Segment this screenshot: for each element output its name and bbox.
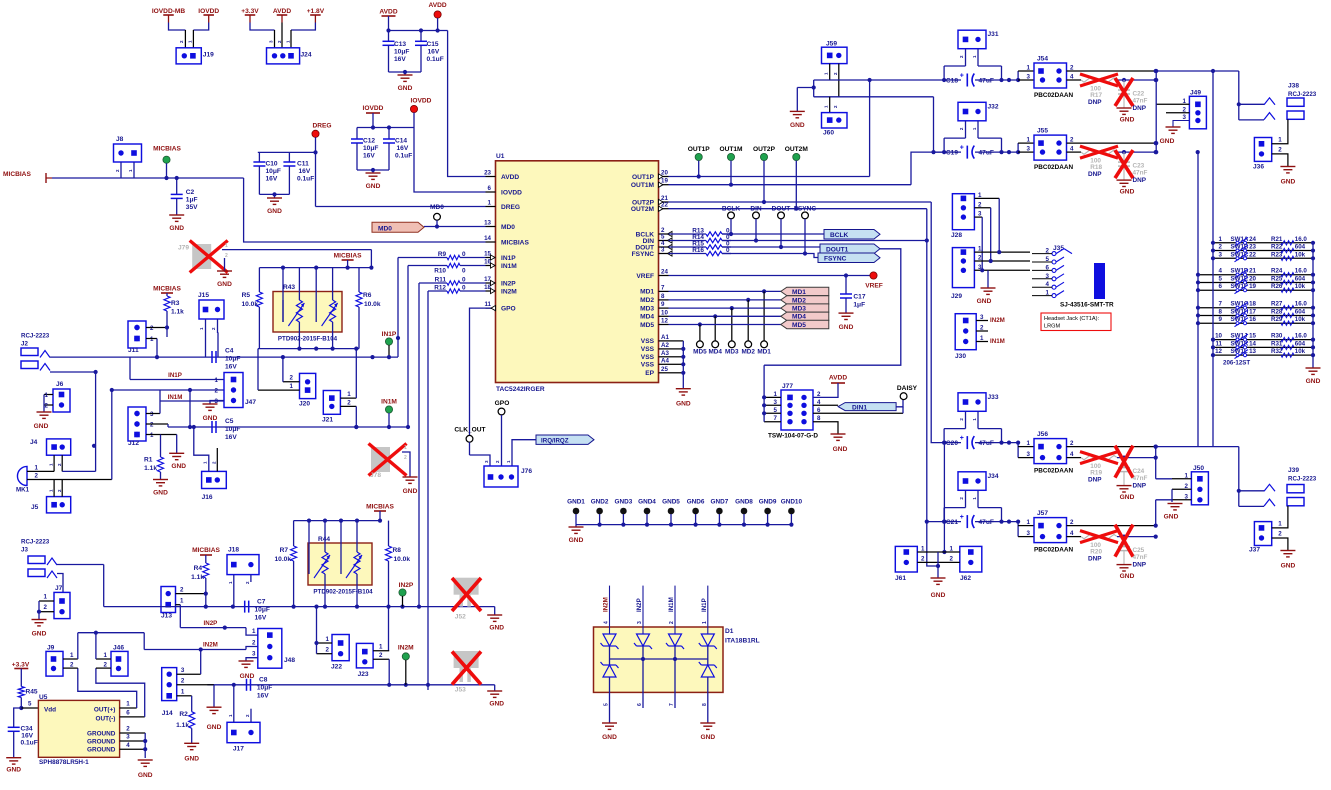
svg-text:GND9: GND9 (759, 499, 777, 506)
svg-text:14: 14 (1249, 340, 1256, 347)
svg-text:GPO: GPO (495, 400, 510, 407)
svg-text:GND: GND (569, 537, 584, 544)
svg-text:MD2: MD2 (640, 297, 654, 304)
svg-text:J38: J38 (1288, 83, 1299, 90)
svg-text:J52: J52 (455, 613, 466, 620)
svg-text:IOVDD: IOVDD (198, 8, 219, 15)
svg-text:J24: J24 (301, 51, 312, 58)
svg-text:VSS: VSS (641, 338, 655, 345)
svg-text:DNP: DNP (1133, 562, 1147, 569)
svg-text:MD2: MD2 (741, 348, 755, 355)
svg-text:2: 2 (326, 647, 330, 654)
svg-text:IN2M: IN2M (203, 642, 218, 649)
svg-text:MD1: MD1 (792, 289, 806, 296)
svg-text:R22: R22 (1271, 244, 1283, 251)
svg-text:24: 24 (1249, 236, 1256, 243)
svg-text:J4: J4 (30, 439, 38, 446)
svg-text:0.1uF: 0.1uF (21, 739, 38, 746)
svg-text:23: 23 (1249, 244, 1256, 251)
svg-text:VREF: VREF (865, 283, 883, 290)
svg-text:10μF: 10μF (225, 426, 240, 433)
svg-text:J30: J30 (955, 353, 966, 360)
svg-text:R20: R20 (1090, 549, 1102, 556)
svg-text:R24: R24 (1271, 268, 1283, 275)
svg-text:MICBIAS: MICBIAS (192, 547, 220, 554)
svg-text:AVDD: AVDD (501, 174, 519, 181)
svg-text:+3.3V: +3.3V (241, 8, 259, 15)
svg-text:2: 2 (669, 621, 675, 624)
svg-text:1: 1 (225, 243, 228, 249)
svg-text:D1: D1 (725, 628, 734, 635)
svg-text:7: 7 (669, 703, 675, 706)
svg-text:2: 2 (1219, 244, 1223, 251)
svg-text:GND: GND (1120, 573, 1135, 580)
svg-text:2: 2 (252, 639, 256, 646)
svg-text:R27: R27 (1271, 301, 1283, 308)
svg-text:16V: 16V (225, 434, 237, 441)
svg-text:16V: 16V (21, 732, 33, 739)
svg-text:R30: R30 (1271, 333, 1283, 340)
svg-text:GND: GND (6, 767, 21, 774)
svg-text:DAISY: DAISY (897, 385, 918, 392)
svg-text:TSW-104-07-G-D: TSW-104-07-G-D (768, 433, 818, 440)
svg-text:13: 13 (484, 220, 491, 227)
svg-text:16.0: 16.0 (1295, 236, 1308, 243)
svg-text:IOVDD: IOVDD (411, 98, 432, 105)
svg-text:J78: J78 (370, 472, 381, 479)
svg-text:J49: J49 (1190, 90, 1201, 97)
svg-text:C19: C19 (946, 150, 958, 157)
svg-text:6: 6 (637, 703, 643, 706)
svg-text:2: 2 (225, 253, 228, 259)
svg-text:2: 2 (150, 422, 154, 429)
svg-text:1: 1 (1027, 440, 1031, 447)
svg-text:604: 604 (1295, 308, 1306, 315)
svg-text:IN1P: IN1P (701, 598, 708, 612)
svg-text:J55: J55 (1037, 128, 1048, 135)
svg-text:ITA18B1RL: ITA18B1RL (725, 638, 760, 645)
svg-text:2: 2 (126, 726, 130, 733)
svg-text:23: 23 (484, 170, 491, 177)
svg-text:2: 2 (1278, 531, 1282, 538)
svg-text:J50: J50 (1193, 465, 1204, 472)
svg-text:15: 15 (1249, 333, 1256, 340)
svg-text:10μF: 10μF (363, 145, 378, 152)
svg-text:GND3: GND3 (615, 499, 633, 506)
svg-text:R4: R4 (194, 565, 203, 572)
svg-text:+: + (960, 73, 964, 80)
svg-text:MD3: MD3 (725, 348, 739, 355)
svg-text:SPH8878LR5H-1: SPH8878LR5H-1 (39, 759, 89, 766)
svg-text:J77: J77 (782, 383, 793, 390)
svg-text:3: 3 (637, 621, 643, 624)
svg-text:6: 6 (488, 185, 492, 192)
svg-text:1: 1 (126, 701, 130, 708)
svg-text:47uF: 47uF (979, 78, 994, 85)
svg-text:3: 3 (1027, 451, 1031, 458)
svg-text:0.1uF: 0.1uF (427, 56, 444, 63)
svg-text:J36: J36 (1253, 164, 1264, 171)
svg-text:2: 2 (290, 375, 294, 382)
svg-text:16: 16 (1249, 316, 1256, 323)
svg-text:604: 604 (1295, 275, 1306, 282)
svg-text:47uF: 47uF (979, 150, 994, 157)
svg-text:MD3: MD3 (640, 305, 654, 312)
svg-text:R2: R2 (179, 711, 188, 718)
svg-text:IOVDD: IOVDD (501, 189, 522, 196)
svg-text:J19: J19 (203, 51, 214, 58)
svg-text:R25: R25 (1271, 275, 1283, 282)
svg-text:16V: 16V (299, 168, 311, 175)
svg-text:J17: J17 (233, 746, 244, 753)
svg-text:GND: GND (489, 701, 504, 708)
svg-text:MICBIAS: MICBIAS (153, 286, 181, 293)
svg-text:47uF: 47uF (979, 440, 994, 447)
svg-text:GND: GND (1160, 138, 1175, 145)
svg-text:R23: R23 (1271, 251, 1283, 258)
svg-text:GND: GND (1120, 117, 1135, 124)
svg-text:SJ-43516-SMT-TR: SJ-43516-SMT-TR (1060, 302, 1114, 309)
svg-text:8: 8 (661, 293, 665, 300)
svg-text:1: 1 (1278, 137, 1282, 144)
svg-text:R6: R6 (363, 292, 372, 299)
svg-text:2: 2 (1278, 147, 1282, 154)
svg-text:J61: J61 (895, 575, 906, 582)
svg-text:C15: C15 (427, 41, 439, 48)
svg-text:MD3: MD3 (792, 306, 806, 313)
svg-text:1: 1 (980, 335, 984, 342)
svg-text:IN1P: IN1P (382, 331, 397, 338)
svg-text:19: 19 (661, 178, 668, 185)
svg-text:DNP: DNP (1133, 483, 1147, 490)
svg-text:2: 2 (45, 403, 49, 410)
svg-text:OUT1M: OUT1M (631, 182, 655, 189)
svg-text:R21: R21 (1271, 236, 1283, 243)
svg-text:IRQ/IRQZ: IRQ/IRQZ (541, 438, 569, 445)
svg-text:VSS: VSS (641, 362, 655, 369)
svg-text:IN2M: IN2M (398, 645, 414, 652)
svg-text:1: 1 (290, 383, 294, 390)
svg-text:GPO: GPO (501, 305, 516, 312)
svg-text:2: 2 (404, 455, 407, 461)
svg-text:16V: 16V (266, 176, 278, 183)
svg-text:GND8: GND8 (735, 499, 753, 506)
svg-text:IN1M: IN1M (668, 597, 675, 612)
svg-text:J54: J54 (1037, 56, 1048, 63)
svg-text:0.1uF: 0.1uF (395, 153, 412, 160)
svg-text:1: 1 (404, 445, 407, 451)
svg-text:C12: C12 (363, 138, 375, 145)
svg-text:J21: J21 (322, 417, 333, 424)
svg-text:MICBIAS: MICBIAS (501, 239, 529, 246)
svg-text:10μF: 10μF (266, 168, 281, 175)
svg-text:1: 1 (70, 652, 74, 659)
svg-text:J15: J15 (198, 292, 209, 299)
svg-text:C13: C13 (394, 41, 406, 48)
svg-text:10μF: 10μF (257, 685, 272, 692)
svg-text:8: 8 (702, 703, 708, 706)
svg-text:2: 2 (347, 400, 351, 407)
svg-text:16V: 16V (255, 615, 267, 622)
svg-text:R3: R3 (171, 300, 180, 307)
svg-text:MD5: MD5 (640, 322, 654, 329)
svg-text:35V: 35V (186, 204, 198, 211)
svg-text:GND: GND (1120, 189, 1135, 196)
svg-text:DNP: DNP (1088, 556, 1102, 563)
svg-text:RCJ-2223: RCJ-2223 (1288, 476, 1317, 483)
svg-text:J6: J6 (56, 381, 64, 388)
svg-text:C4: C4 (225, 348, 234, 355)
svg-text:GND: GND (267, 208, 282, 215)
svg-text:1: 1 (252, 628, 256, 635)
svg-text:MICBIAS: MICBIAS (153, 146, 181, 153)
svg-text:4: 4 (604, 621, 610, 624)
svg-text:1.1k: 1.1k (176, 722, 189, 729)
svg-text:CLK_OUT: CLK_OUT (454, 427, 485, 434)
svg-text:J28: J28 (951, 232, 962, 239)
svg-text:5: 5 (774, 407, 778, 414)
svg-text:1: 1 (950, 545, 954, 552)
svg-text:DNP: DNP (1133, 105, 1147, 112)
svg-text:R16: R16 (692, 247, 704, 254)
svg-text:J35: J35 (1053, 245, 1064, 252)
svg-text:MD1: MD1 (640, 289, 654, 296)
svg-text:3: 3 (661, 247, 665, 254)
svg-text:GROUND: GROUND (87, 747, 116, 754)
svg-text:IN1P: IN1P (501, 255, 516, 262)
svg-text:RCJ-2223: RCJ-2223 (21, 333, 50, 340)
svg-text:J29: J29 (951, 293, 962, 300)
svg-text:OUT(-): OUT(-) (96, 715, 116, 722)
svg-text:J37: J37 (1249, 547, 1260, 554)
svg-text:J59: J59 (826, 41, 837, 48)
svg-text:J2: J2 (21, 341, 28, 348)
svg-text:3: 3 (1027, 530, 1031, 537)
svg-text:3: 3 (774, 399, 778, 406)
svg-text:A4: A4 (661, 357, 669, 364)
svg-text:J12: J12 (128, 440, 139, 447)
svg-text:C22: C22 (1133, 91, 1145, 98)
svg-text:J3: J3 (21, 547, 28, 554)
svg-text:16.0: 16.0 (1295, 301, 1308, 308)
svg-text:1: 1 (1027, 519, 1031, 526)
svg-text:GND: GND (931, 592, 946, 599)
svg-text:5: 5 (1219, 275, 1223, 282)
svg-text:+: + (960, 145, 964, 152)
svg-text:16V: 16V (394, 56, 406, 63)
svg-text:R43: R43 (283, 284, 295, 291)
svg-text:J7: J7 (55, 585, 63, 592)
svg-text:J22: J22 (331, 664, 342, 671)
svg-text:1: 1 (35, 465, 39, 472)
svg-text:10k: 10k (1295, 316, 1306, 323)
svg-text:GND: GND (1281, 563, 1296, 570)
svg-text:16V: 16V (257, 693, 269, 700)
svg-text:GND: GND (790, 122, 805, 129)
svg-text:BCLK: BCLK (830, 232, 849, 239)
svg-text:IN2P: IN2P (204, 620, 218, 627)
svg-text:1: 1 (1278, 521, 1282, 528)
svg-text:GND: GND (489, 625, 504, 632)
svg-text:GND: GND (839, 324, 854, 331)
svg-text:GND: GND (700, 734, 715, 741)
svg-text:10k: 10k (1295, 283, 1306, 290)
svg-text:J39: J39 (1288, 467, 1299, 474)
svg-text:0: 0 (462, 251, 466, 258)
svg-text:0.1uF: 0.1uF (297, 176, 314, 183)
svg-text:IN2M: IN2M (501, 288, 517, 295)
svg-text:J57: J57 (1037, 510, 1048, 517)
svg-text:1: 1 (347, 391, 351, 398)
svg-text:OUT2P: OUT2P (753, 146, 776, 153)
svg-text:10μF: 10μF (225, 356, 240, 363)
svg-text:IN2M: IN2M (603, 597, 610, 612)
svg-text:TAC5242IRGER: TAC5242IRGER (496, 386, 545, 393)
svg-text:1: 1 (921, 545, 925, 552)
svg-text:10k: 10k (1295, 348, 1306, 355)
svg-text:13: 13 (1249, 348, 1256, 355)
svg-text:R32: R32 (1271, 348, 1283, 355)
svg-text:R19: R19 (1090, 470, 1102, 477)
svg-text:J62: J62 (960, 575, 971, 582)
svg-text:GND: GND (977, 298, 992, 305)
svg-text:1: 1 (104, 652, 108, 659)
svg-text:VREF: VREF (636, 273, 654, 280)
svg-text:C14: C14 (395, 138, 407, 145)
svg-text:AVDD: AVDD (379, 9, 397, 16)
svg-text:DNP: DNP (1133, 177, 1147, 184)
svg-text:0: 0 (462, 277, 466, 284)
svg-text:10: 10 (661, 309, 668, 316)
svg-text:+: + (960, 514, 964, 521)
svg-text:2: 2 (44, 604, 48, 611)
svg-text:GND: GND (171, 463, 186, 470)
svg-text:20: 20 (1249, 275, 1256, 282)
svg-text:1μF: 1μF (186, 197, 198, 204)
svg-text:2: 2 (921, 556, 925, 563)
svg-text:6: 6 (1219, 283, 1223, 290)
svg-text:1: 1 (488, 200, 492, 207)
svg-text:GND: GND (153, 490, 168, 497)
svg-text:OUT1M: OUT1M (719, 146, 743, 153)
svg-text:0: 0 (462, 268, 466, 275)
svg-text:J5: J5 (31, 504, 39, 511)
svg-text:47nF: 47nF (1133, 98, 1148, 105)
svg-text:2: 2 (150, 325, 154, 332)
svg-text:J76: J76 (521, 468, 532, 475)
svg-text:604: 604 (1295, 244, 1306, 251)
svg-text:DREG: DREG (501, 204, 520, 211)
svg-text:R44: R44 (318, 536, 330, 543)
svg-text:47nF: 47nF (1133, 170, 1148, 177)
svg-text:J32: J32 (988, 103, 999, 110)
svg-text:1: 1 (215, 377, 219, 384)
svg-text:6: 6 (126, 710, 130, 717)
svg-text:7: 7 (661, 284, 665, 291)
svg-text:IN2P: IN2P (399, 582, 414, 589)
svg-text:2: 2 (180, 586, 184, 593)
svg-text:MICBIAS: MICBIAS (334, 253, 362, 260)
svg-text:7: 7 (774, 415, 778, 422)
svg-text:PTD902-2015F-B104: PTD902-2015F-B104 (278, 336, 338, 343)
svg-text:10μF: 10μF (394, 49, 409, 56)
svg-text:1μF: 1μF (853, 302, 865, 309)
svg-text:GND6: GND6 (687, 499, 705, 506)
svg-text:12: 12 (1215, 348, 1222, 355)
svg-text:14: 14 (484, 235, 491, 242)
svg-text:47nF: 47nF (1133, 475, 1148, 482)
svg-text:24: 24 (661, 269, 668, 276)
svg-text:R12: R12 (434, 285, 446, 292)
svg-text:GND: GND (1306, 378, 1321, 385)
svg-text:FSYNC: FSYNC (632, 251, 655, 258)
svg-text:J46: J46 (113, 645, 124, 652)
svg-text:2: 2 (379, 652, 383, 659)
svg-text:2: 2 (978, 255, 982, 262)
svg-text:C25: C25 (1133, 547, 1145, 554)
svg-text:Vdd: Vdd (44, 707, 56, 714)
svg-text:21: 21 (1249, 268, 1256, 275)
svg-text:IN2P: IN2P (636, 598, 643, 612)
svg-text:R45: R45 (26, 689, 38, 696)
svg-text:GND: GND (1120, 494, 1135, 501)
svg-text:GND: GND (366, 183, 381, 190)
svg-text:C18: C18 (946, 78, 958, 85)
svg-text:11: 11 (484, 301, 491, 308)
svg-text:GND: GND (403, 488, 418, 495)
svg-text:3: 3 (126, 734, 130, 741)
svg-text:IN1M: IN1M (990, 338, 1005, 345)
svg-text:1: 1 (1185, 472, 1189, 479)
svg-text:1: 1 (45, 392, 49, 399)
svg-text:J31: J31 (988, 31, 999, 38)
svg-text:2: 2 (980, 325, 984, 332)
svg-text:1: 1 (181, 689, 185, 696)
svg-text:GND: GND (1281, 179, 1296, 186)
svg-text:22: 22 (1249, 251, 1256, 258)
svg-text:VSS: VSS (641, 354, 655, 361)
svg-text:2: 2 (181, 677, 185, 684)
svg-text:J56: J56 (1037, 431, 1048, 438)
svg-text:DNP: DNP (1088, 477, 1102, 484)
svg-text:1.1k: 1.1k (171, 309, 184, 316)
svg-text:10μF: 10μF (255, 607, 270, 614)
svg-text:C20: C20 (946, 440, 958, 447)
svg-text:1: 1 (774, 391, 778, 398)
svg-text:7: 7 (1219, 301, 1223, 308)
svg-text:3: 3 (980, 314, 984, 321)
svg-text:DNP: DNP (1088, 99, 1102, 106)
svg-text:GND: GND (207, 724, 222, 731)
svg-text:J20: J20 (299, 401, 310, 408)
svg-text:10.0k: 10.0k (274, 556, 291, 563)
svg-text:J14: J14 (162, 710, 173, 717)
svg-text:2: 2 (104, 661, 108, 668)
svg-text:1: 1 (180, 598, 184, 605)
svg-text:9: 9 (1219, 316, 1223, 323)
svg-text:GND: GND (203, 415, 218, 422)
svg-text:8: 8 (1219, 308, 1223, 315)
svg-text:20: 20 (661, 170, 668, 177)
svg-text:GND: GND (34, 423, 49, 430)
svg-text:GND: GND (138, 772, 153, 779)
svg-text:10.0k: 10.0k (394, 556, 411, 563)
svg-text:9: 9 (661, 301, 665, 308)
svg-text:2: 2 (1185, 483, 1189, 490)
svg-text:GND10: GND10 (781, 499, 803, 506)
svg-text:2: 2 (950, 556, 954, 563)
svg-text:MD4: MD4 (792, 314, 806, 321)
